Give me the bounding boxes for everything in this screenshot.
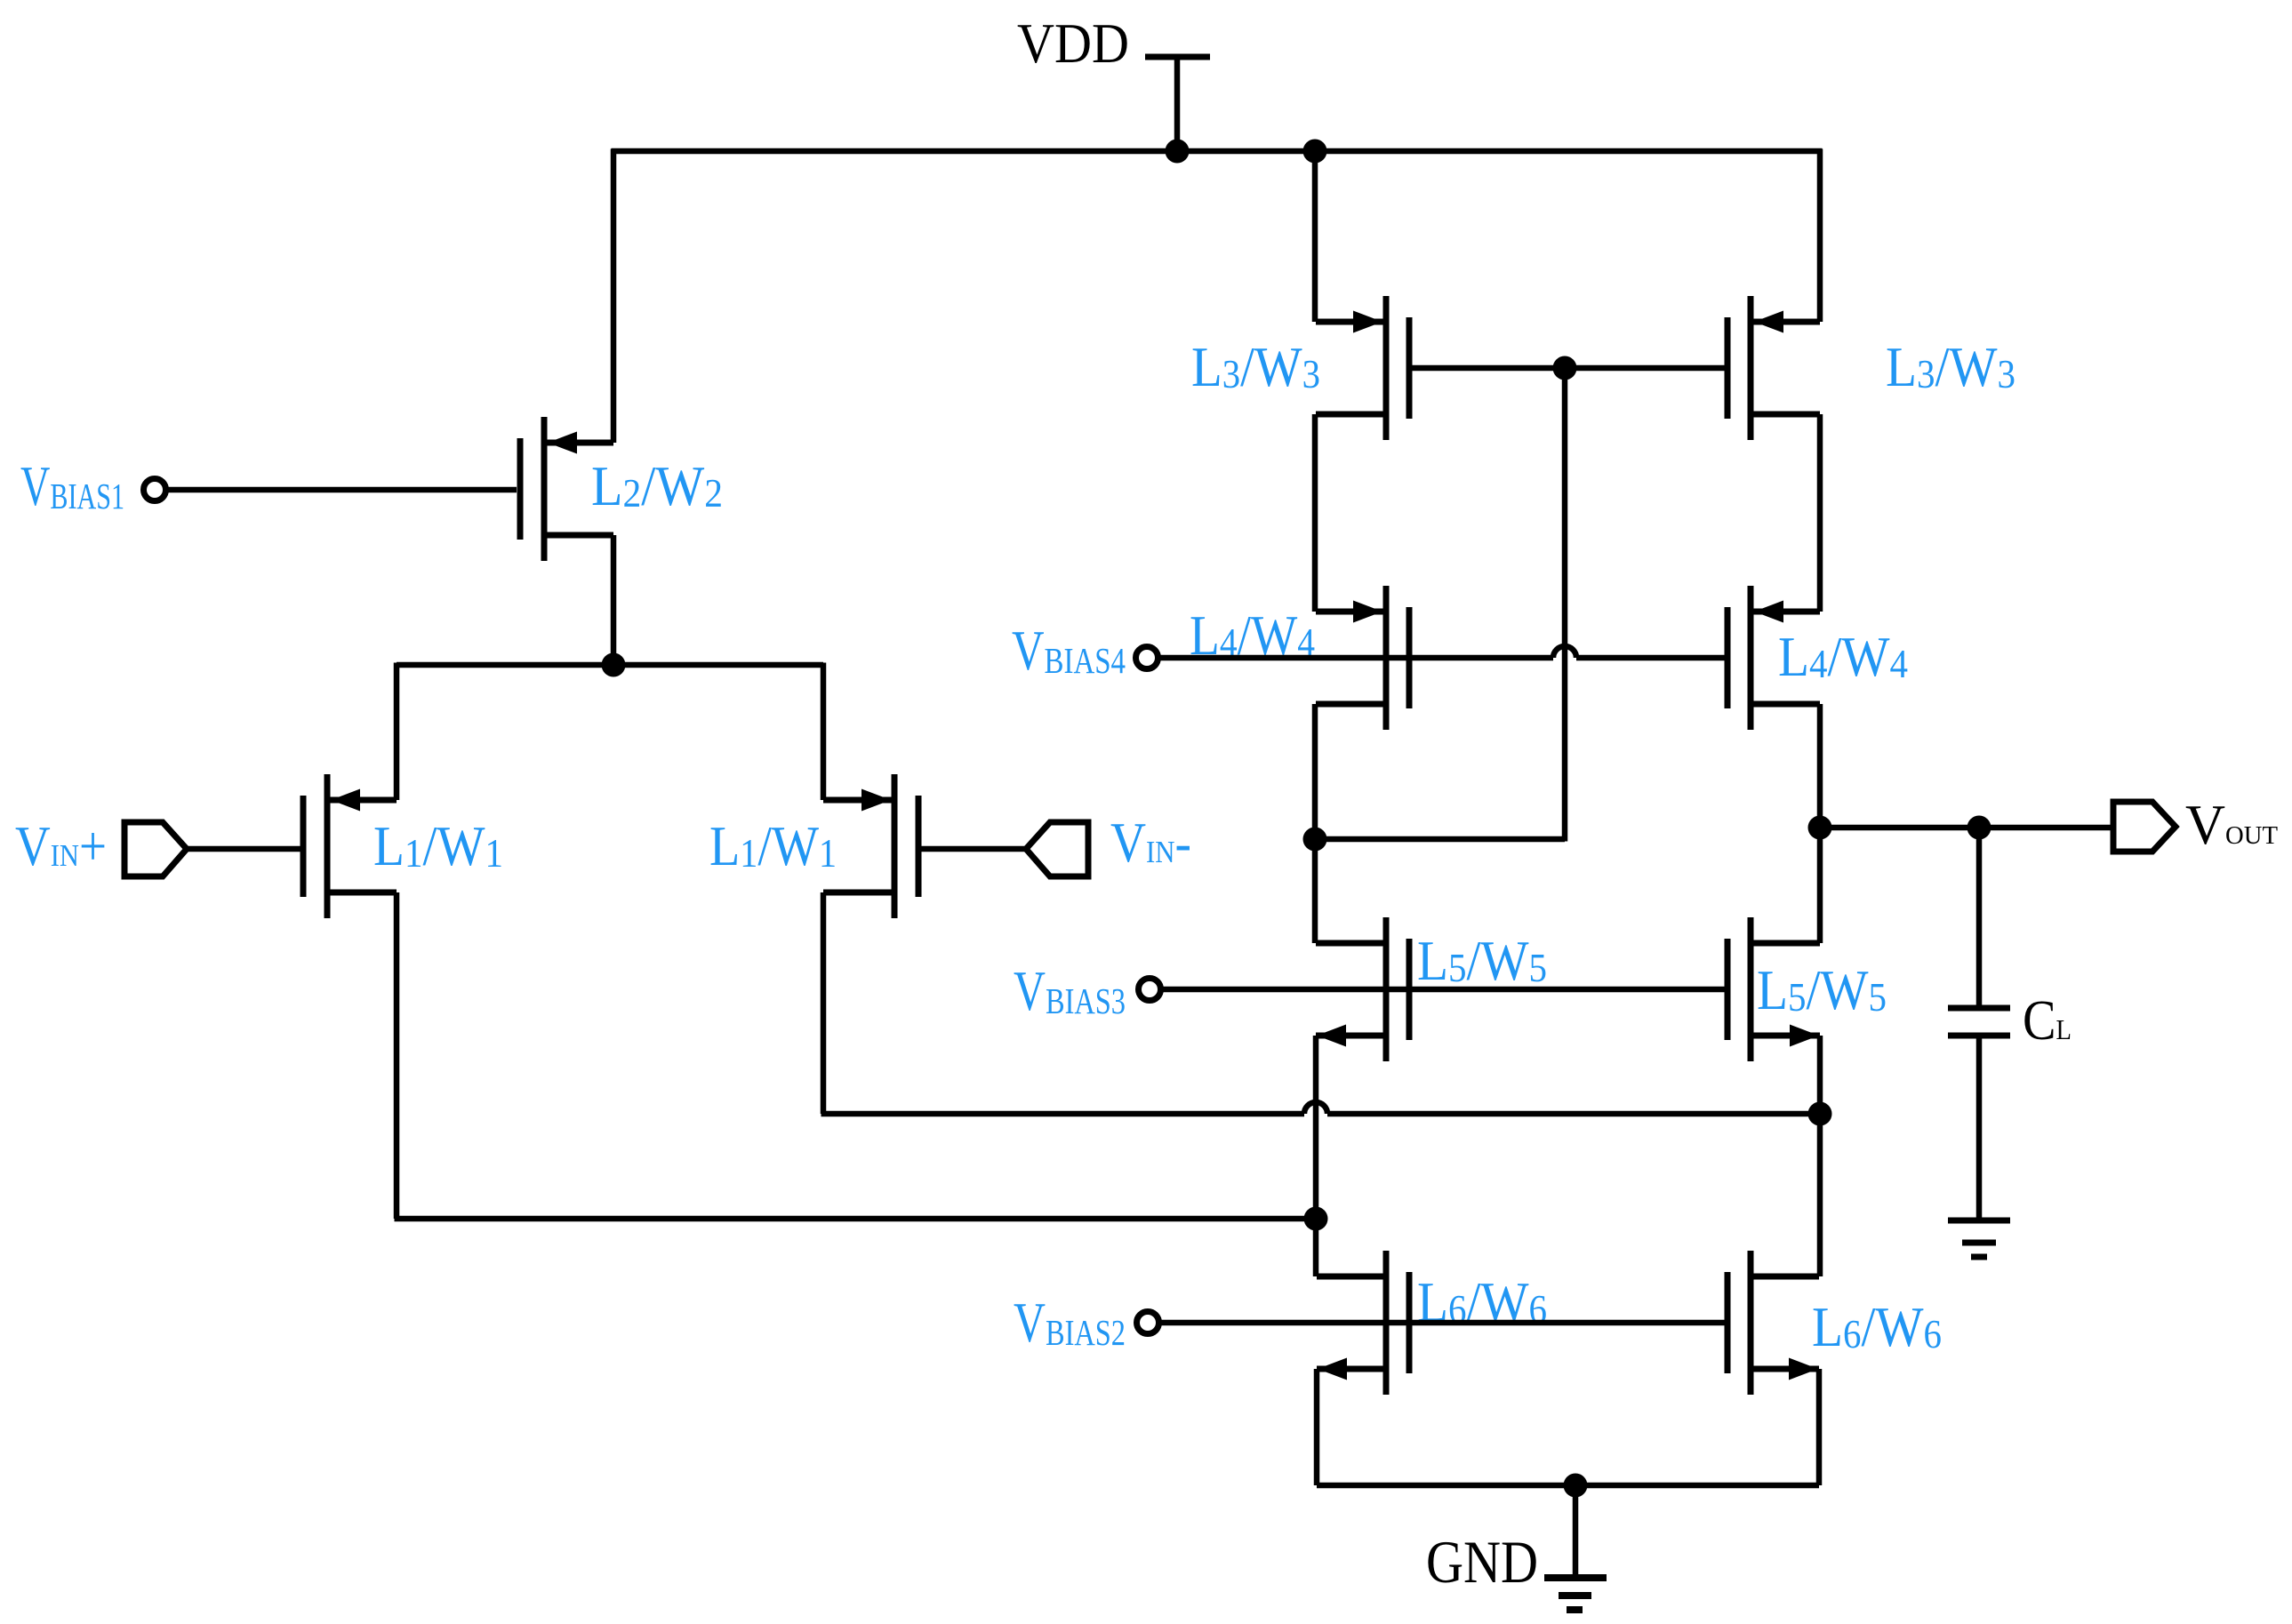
junction left cascode node: [1303, 828, 1327, 852]
svg-text:L1/W1: L1/W1: [373, 815, 503, 877]
svg-text:L5/W5: L5/W5: [1757, 959, 1887, 1021]
wire VBIAS1 to M2 gate: [167, 487, 517, 493]
junction top rail to left cascode branch: [1303, 140, 1327, 164]
svg-text:L1/W1: L1/W1: [709, 815, 837, 877]
svg-text:VDD: VDD: [1017, 12, 1129, 75]
wire M1b drain to right folding node (with hop): [821, 1102, 1821, 1114]
svg-text:GND: GND: [1426, 1528, 1538, 1596]
terminal VBIAS3: [1139, 979, 1161, 1001]
port VIN+ flag: [124, 822, 187, 876]
svg-text:L4/W4: L4/W4: [1778, 626, 1908, 688]
junction output node: [1808, 816, 1832, 840]
junction left folding node: [1304, 1207, 1328, 1231]
svg-text:L6/W6: L6/W6: [1812, 1296, 1942, 1358]
wire M3a gate to gate node: [1409, 365, 1565, 372]
junction right folding node: [1808, 1102, 1832, 1126]
wire M5b source down to right folding node: [1817, 1036, 1823, 1276]
wire M4a drain to left node: [1312, 704, 1318, 839]
transistor M4b (L4/W4) PMOS cascode right: [1727, 586, 1820, 730]
transistor M6a (L6/W6) NMOS sink left: [1317, 1251, 1409, 1395]
port VIN- flag: [1026, 822, 1088, 876]
terminal VBIAS1: [144, 479, 166, 501]
svg-text:L5/W5: L5/W5: [1417, 930, 1547, 992]
svg-text:L3/W3: L3/W3: [1191, 336, 1320, 398]
wire gate node to M3b gate: [1565, 365, 1727, 372]
transistor M6b (L6/W6) NMOS sink right: [1727, 1251, 1819, 1395]
wire top rail to M3a source: [1312, 151, 1318, 322]
wire M1b gate to VIN-: [918, 846, 1028, 852]
transistor M1b (L1/W1) PMOS input right: [823, 774, 918, 918]
wire M1b drain down: [821, 892, 827, 1114]
wire left node to L3 gates riser: [1315, 368, 1565, 842]
wire M2 drain to tail node: [611, 535, 617, 665]
junction VDD tap: [1166, 140, 1190, 164]
wire M3a drain to M4a source: [1312, 414, 1318, 612]
wire M6a source down to ground rail: [1314, 1369, 1320, 1485]
wire output node to VOUT: [1820, 825, 2113, 831]
transistor M4a (L4/W4) PMOS cascode left: [1316, 586, 1409, 730]
wire M1a drain down: [394, 892, 400, 1219]
wire CL tap down to capacitor: [1976, 828, 1983, 1005]
ground symbol (GND): [1544, 1485, 1607, 1610]
transistor M5b (L5/W5) NMOS cascode right: [1727, 917, 1820, 1061]
svg-text:L3/W3: L3/W3: [1886, 336, 2016, 398]
svg-text:L2/W2: L2/W2: [591, 455, 723, 517]
transistor M2 (L2/W2) PMOS tail current source: [520, 417, 613, 561]
junction tail node: [602, 653, 626, 677]
wire VBIAS3 to M5 gates: [1162, 987, 1727, 993]
transistor M5a (L5/W5) NMOS cascode left: [1316, 917, 1409, 1061]
wire bottom ground rail: [1317, 1483, 1819, 1489]
wire top VDD rail: [612, 148, 1823, 155]
wire output node to M5b drain: [1817, 828, 1823, 943]
wire VBIAS2 to M6 gates: [1160, 1320, 1727, 1326]
transistor M1a (L1/W1) PMOS input left: [303, 774, 397, 918]
terminal VBIAS4: [1136, 647, 1158, 669]
port VOUT flag: [2113, 802, 2176, 852]
wire top rail right drop to M3b source: [1817, 149, 1823, 323]
wire M5a source down to left folding node: [1313, 1036, 1319, 1276]
wire top rail left drop to M2 source: [611, 149, 617, 444]
junction CL tap: [1967, 816, 1991, 840]
transistor M3a (L3/W3) PMOS mirror left: [1316, 296, 1409, 440]
junction ground node: [1564, 1474, 1588, 1498]
wire M4b drain to output node: [1817, 704, 1823, 828]
capacitor CL: [1948, 1008, 2010, 1036]
wire M1a drain to left folding node: [395, 1216, 1317, 1222]
wire tail rail: [397, 663, 823, 801]
junction L3 gate node: [1553, 356, 1577, 380]
wire VBIAS4 to M4 gates (with hop): [1159, 646, 1727, 658]
wire M3b drain to M4b source: [1817, 414, 1823, 612]
wire left node to M5a drain: [1312, 839, 1318, 943]
wire M6b source down to ground rail: [1816, 1369, 1823, 1485]
VDD supply symbol: [1145, 57, 1210, 151]
wire capacitor to ground: [1976, 1038, 1983, 1218]
ground symbol (CL): [1948, 1220, 2010, 1257]
transistor M3b (L3/W3) PMOS mirror right: [1727, 296, 1820, 440]
wire VIN+ to M1a gate: [185, 846, 303, 852]
terminal VBIAS2: [1137, 1312, 1159, 1334]
